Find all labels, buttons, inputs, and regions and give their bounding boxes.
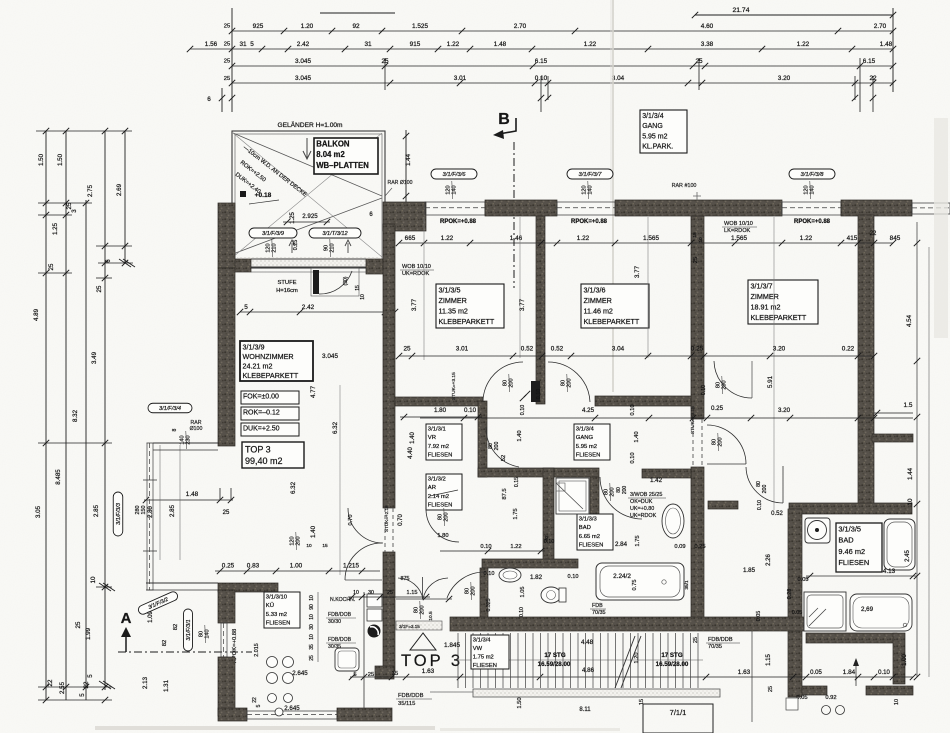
svg-text:0.10: 0.10 bbox=[757, 500, 763, 510]
svg-text:30/35: 30/35 bbox=[328, 644, 341, 650]
svg-text:915: 915 bbox=[410, 41, 421, 48]
svg-text:3/1/F/3/7: 3/1/F/3/7 bbox=[579, 172, 603, 178]
room stamp 7/1/1 below stairs bbox=[643, 704, 713, 733]
svg-text:STUK=+2.15: STUK=+2.15 bbox=[384, 505, 389, 532]
top exterior wall segment A (corner block) bbox=[383, 202, 426, 231]
svg-text:4.48: 4.48 bbox=[581, 639, 594, 646]
shower niche wall bath3 bbox=[590, 477, 599, 515]
corridor door arc to bath3 bbox=[600, 477, 642, 519]
svg-text:25: 25 bbox=[693, 637, 699, 643]
svg-text:25: 25 bbox=[75, 621, 82, 628]
room box Gang lower bbox=[574, 424, 610, 460]
svg-text:0.25: 0.25 bbox=[222, 563, 235, 570]
svg-text:3/1/F/3/8: 3/1/F/3/8 bbox=[801, 172, 825, 178]
svg-text:1.46: 1.46 bbox=[510, 235, 523, 242]
svg-text:1.22: 1.22 bbox=[510, 544, 521, 550]
window-bay dimension labels left bbox=[113, 492, 123, 536]
svg-text:2.015: 2.015 bbox=[254, 643, 260, 657]
svg-text:25: 25 bbox=[224, 24, 230, 30]
svg-text:1.40: 1.40 bbox=[410, 432, 416, 444]
bad3 shower tray bbox=[556, 478, 589, 514]
corridor top wall east segment bbox=[595, 396, 691, 406]
svg-text:17 STG: 17 STG bbox=[661, 652, 683, 659]
svg-text:200: 200 bbox=[622, 486, 628, 495]
svg-text:3.20: 3.20 bbox=[773, 346, 786, 353]
room box Bad5 bbox=[836, 523, 882, 572]
oval 3/1/F/3/8 bbox=[789, 169, 835, 179]
left bay window (vertical) bbox=[146, 443, 148, 590]
svg-text:2.645: 2.645 bbox=[284, 705, 300, 712]
svg-text:5: 5 bbox=[87, 674, 94, 678]
svg-text:UK=RDOK: UK=RDOK bbox=[630, 513, 657, 519]
svg-text:3.49: 3.49 bbox=[91, 351, 98, 364]
left bay window top連 bbox=[153, 442, 218, 444]
oval 3/1/F/3/7 bbox=[567, 169, 613, 179]
svg-text:0.10: 0.10 bbox=[630, 452, 636, 463]
svg-text:1.22: 1.22 bbox=[441, 235, 454, 242]
svg-text:STUK=+3.15: STUK=+3.15 bbox=[690, 406, 696, 434]
svg-text:FLIESEN: FLIESEN bbox=[838, 558, 869, 567]
bath5 east lower wall bbox=[893, 633, 905, 684]
svg-text:8: 8 bbox=[172, 428, 178, 431]
spine wall lower bbox=[383, 552, 395, 671]
svg-text:0.10: 0.10 bbox=[520, 405, 526, 416]
svg-text:KL.PARK.: KL.PARK. bbox=[642, 144, 673, 151]
svg-text:3/1/3/4: 3/1/3/4 bbox=[576, 427, 595, 433]
svg-text:2.69: 2.69 bbox=[116, 183, 123, 196]
svg-text:5.95 m2: 5.95 m2 bbox=[576, 444, 597, 450]
top exterior wall window 3 bbox=[782, 201, 841, 203]
svg-text:KLEBEPARKETT: KLEBEPARKETT bbox=[439, 317, 495, 326]
svg-text:8.11: 8.11 bbox=[579, 707, 591, 713]
svg-text:925: 925 bbox=[253, 23, 264, 30]
svg-text:0.325: 0.325 bbox=[486, 598, 492, 611]
svg-text:1.48: 1.48 bbox=[186, 491, 199, 498]
svg-text:3.045: 3.045 bbox=[322, 353, 338, 360]
svg-text:FDB/DDB: FDB/DDB bbox=[398, 693, 424, 699]
stair hall label box bbox=[471, 635, 509, 669]
room box AR bbox=[426, 474, 462, 510]
bad5 bathtub right bbox=[884, 519, 915, 570]
svg-text:Ø100: Ø100 bbox=[190, 426, 203, 432]
kitchen tall units bbox=[367, 594, 382, 607]
svg-text:5.91: 5.91 bbox=[767, 375, 774, 388]
svg-text:TOP 3: TOP 3 bbox=[245, 444, 271, 454]
svg-text:1.09: 1.09 bbox=[148, 611, 154, 623]
svg-text:25: 25 bbox=[693, 257, 699, 263]
entrance double door arcs bbox=[398, 578, 423, 599]
svg-text:9.46 m2: 9.46 m2 bbox=[838, 547, 865, 556]
svg-text:STUFE: STUFE bbox=[277, 280, 296, 286]
svg-text:0.83: 0.83 bbox=[247, 563, 260, 570]
svg-text:150: 150 bbox=[141, 506, 147, 515]
svg-text:1.20: 1.20 bbox=[634, 653, 640, 664]
balcony floor dotted strip bbox=[237, 257, 380, 267]
svg-text:1.80: 1.80 bbox=[434, 407, 447, 414]
svg-text:0.10: 0.10 bbox=[464, 407, 477, 414]
svg-text:70/35: 70/35 bbox=[708, 644, 722, 650]
svg-text:1.75: 1.75 bbox=[513, 508, 519, 519]
svg-text:200: 200 bbox=[494, 442, 500, 451]
svg-text:25: 25 bbox=[48, 263, 55, 270]
svg-text:30: 30 bbox=[309, 624, 315, 630]
svg-text:0.10: 0.10 bbox=[536, 389, 542, 400]
stair dim vertical bbox=[751, 631, 753, 722]
svg-text:KÜ: KÜ bbox=[266, 602, 274, 609]
svg-text:25: 25 bbox=[66, 202, 73, 209]
entrance threshold hatch bbox=[396, 621, 442, 630]
svg-text:2.84: 2.84 bbox=[615, 541, 628, 548]
svg-text:10: 10 bbox=[309, 634, 315, 640]
svg-text:2.75: 2.75 bbox=[87, 184, 94, 197]
room box Wohnzimmer bbox=[240, 341, 313, 381]
svg-text:0.05: 0.05 bbox=[798, 577, 809, 583]
balcony door markers ovals bbox=[249, 228, 297, 238]
svg-text:OK=DUK: OK=DUK bbox=[630, 499, 653, 505]
svg-text:10: 10 bbox=[306, 543, 312, 549]
interior wall x=691 lower bbox=[691, 467, 704, 626]
svg-text:1.44: 1.44 bbox=[405, 153, 412, 166]
lower-left ovals and door markers bbox=[137, 590, 179, 615]
svg-text:2,69: 2,69 bbox=[861, 606, 874, 613]
svg-text:25: 25 bbox=[96, 285, 103, 292]
top exterior wall segment C bbox=[615, 200, 782, 216]
svg-text:1.5: 1.5 bbox=[904, 402, 913, 409]
svg-text:3.05: 3.05 bbox=[35, 505, 42, 518]
svg-text:BALKON: BALKON bbox=[316, 140, 350, 149]
bath5 corridor walls bbox=[708, 501, 738, 509]
svg-text:RAR #100: RAR #100 bbox=[672, 183, 697, 189]
svg-text:FLIESEN: FLIESEN bbox=[266, 620, 291, 626]
svg-text:0.70: 0.70 bbox=[348, 515, 354, 526]
svg-text:1.50: 1.50 bbox=[517, 697, 523, 708]
room box Bad3 bbox=[577, 514, 613, 550]
svg-text:5: 5 bbox=[256, 704, 262, 707]
svg-text:3/1/F/3/4: 3/1/F/3/4 bbox=[159, 406, 181, 412]
svg-text:RPOK=+0.88: RPOK=+0.88 bbox=[794, 219, 831, 225]
svg-text:RAR Ø100: RAR Ø100 bbox=[387, 180, 412, 186]
svg-text:KLEBEPARKETT: KLEBEPARKETT bbox=[243, 371, 299, 380]
svg-text:1.05: 1.05 bbox=[520, 587, 526, 598]
stairwell top wall bbox=[450, 617, 806, 631]
svg-text:0.25: 0.25 bbox=[694, 544, 705, 550]
svg-text:2.13: 2.13 bbox=[142, 676, 149, 689]
dimension chain top row 1 bbox=[232, 30, 893, 32]
svg-text:5: 5 bbox=[250, 41, 254, 48]
svg-text:1.565: 1.565 bbox=[643, 235, 659, 242]
svg-text:30: 30 bbox=[368, 590, 374, 596]
svg-text:1.20: 1.20 bbox=[301, 23, 314, 30]
svg-text:8.04 m2: 8.04 m2 bbox=[316, 150, 345, 159]
dim row under top wall bbox=[399, 242, 893, 244]
svg-text:3/1/3/3: 3/1/3/3 bbox=[579, 517, 598, 523]
svg-text:FLIESEN: FLIESEN bbox=[576, 452, 601, 458]
svg-text:8.32: 8.32 bbox=[72, 409, 79, 422]
svg-text:H=16cm: H=16cm bbox=[276, 288, 298, 294]
svg-text:GANG: GANG bbox=[642, 123, 663, 130]
svg-text:1.99: 1.99 bbox=[85, 627, 92, 640]
svg-text:0.10: 0.10 bbox=[630, 404, 636, 415]
svg-text:25: 25 bbox=[224, 42, 230, 48]
bad3 washbasin oval bbox=[662, 504, 684, 538]
svg-text:7/1/1: 7/1/1 bbox=[670, 708, 687, 717]
svg-text:3/1/3/9: 3/1/3/9 bbox=[243, 342, 265, 351]
svg-text:3.01: 3.01 bbox=[454, 75, 467, 82]
svg-text:25: 25 bbox=[223, 510, 230, 516]
svg-text:FOK=±0.00: FOK=±0.00 bbox=[243, 394, 279, 401]
svg-text:665: 665 bbox=[405, 235, 416, 242]
svg-text:1.80: 1.80 bbox=[437, 533, 448, 539]
svg-text:25: 25 bbox=[309, 655, 315, 661]
svg-text:3/1/F/3/1: 3/1/F/3/1 bbox=[186, 619, 192, 640]
bottom exterior wall bbox=[218, 708, 247, 721]
svg-text:VR: VR bbox=[428, 435, 436, 441]
double door arcs between rooms (0.52) bbox=[483, 362, 523, 402]
svg-text:0.10: 0.10 bbox=[519, 607, 525, 617]
svg-text:10: 10 bbox=[907, 498, 914, 505]
svg-text:22: 22 bbox=[252, 697, 258, 703]
svg-text:3/1/T/3/12: 3/1/T/3/12 bbox=[322, 231, 348, 237]
stair treads bbox=[457, 633, 459, 688]
svg-text:FLIESEN: FLIESEN bbox=[428, 452, 453, 458]
svg-text:87.5: 87.5 bbox=[502, 488, 508, 499]
svg-text:1.31: 1.31 bbox=[163, 679, 170, 692]
dimension chain top row 2 bbox=[190, 48, 893, 50]
svg-text:3/1/3/2: 3/1/3/2 bbox=[428, 477, 446, 483]
svg-text:FDB: FDB bbox=[592, 603, 603, 609]
svg-text:3/1/3/1: 3/1/3/1 bbox=[428, 427, 446, 433]
svg-text:3/WOB 25/25: 3/WOB 25/25 bbox=[630, 492, 662, 498]
door leaf black corridor bbox=[531, 381, 540, 402]
left dimension tick lines bbox=[36, 130, 132, 132]
svg-text:21.74: 21.74 bbox=[732, 7, 749, 14]
svg-text:A: A bbox=[121, 610, 132, 627]
svg-text:10: 10 bbox=[353, 590, 359, 596]
svg-text:3: 3 bbox=[71, 209, 78, 213]
svg-text:17 STG: 17 STG bbox=[544, 652, 566, 659]
svg-text:16.59/28.00: 16.59/28.00 bbox=[538, 661, 571, 668]
svg-text:6.15: 6.15 bbox=[535, 58, 548, 65]
scan smudge bottom bbox=[95, 726, 435, 730]
svg-text:0.92: 0.92 bbox=[825, 695, 836, 701]
room box Zimmer 3/1/3/5 bbox=[436, 284, 504, 328]
svg-text:4.77: 4.77 bbox=[310, 385, 317, 398]
svg-text:10: 10 bbox=[360, 294, 366, 300]
svg-text:25: 25 bbox=[224, 59, 230, 65]
svg-text:0.10: 0.10 bbox=[878, 670, 890, 676]
dimension chain top row 0 (21.74) bbox=[695, 14, 893, 16]
svg-text:2.45: 2.45 bbox=[905, 550, 911, 562]
dimension chain top row 4 bbox=[232, 82, 893, 84]
interior spine wall x=383 bbox=[383, 224, 395, 508]
svg-text:1.40: 1.40 bbox=[310, 525, 317, 538]
svg-text:0.75: 0.75 bbox=[632, 580, 638, 591]
svg-text:0.22: 0.22 bbox=[842, 346, 855, 353]
svg-text:1.215: 1.215 bbox=[343, 563, 359, 570]
svg-text:52: 52 bbox=[501, 455, 507, 461]
svg-text:200: 200 bbox=[762, 485, 768, 494]
corridor dim row y=548 bbox=[440, 550, 545, 552]
bath5 west wall bbox=[788, 509, 802, 697]
level boxes FOK/ROK/DUK bbox=[241, 391, 299, 404]
wc toilet bbox=[541, 587, 561, 603]
VR east wall bbox=[478, 401, 487, 477]
AR door arc bbox=[426, 509, 459, 542]
balcony small up arrows bbox=[289, 240, 295, 253]
svg-text:KLEBEPARKETT: KLEBEPARKETT bbox=[751, 313, 807, 322]
svg-text:4.25: 4.25 bbox=[582, 407, 595, 414]
room box Zimmer 3/1/3/6 bbox=[581, 284, 649, 328]
svg-text:0.15: 0.15 bbox=[514, 477, 520, 487]
svg-text:90: 90 bbox=[309, 604, 315, 610]
svg-text:3/1/3/6: 3/1/3/6 bbox=[584, 285, 606, 294]
svg-text:ZIMMER: ZIMMER bbox=[439, 296, 467, 305]
svg-text:1.84: 1.84 bbox=[843, 669, 856, 676]
bad5 shower tray bbox=[804, 592, 846, 631]
svg-text:10.5: 10.5 bbox=[428, 611, 434, 621]
svg-text:15: 15 bbox=[692, 232, 698, 238]
svg-text:5: 5 bbox=[79, 693, 86, 697]
svg-text:15: 15 bbox=[322, 543, 328, 549]
svg-text:25: 25 bbox=[768, 686, 774, 692]
svg-text:6: 6 bbox=[105, 259, 112, 263]
dim row under balcony bbox=[240, 311, 395, 313]
svg-text:25: 25 bbox=[224, 76, 230, 82]
dimension chain top verticals bbox=[231, 8, 233, 112]
svg-text:4.40: 4.40 bbox=[408, 447, 414, 459]
svg-text:2.14 m2: 2.14 m2 bbox=[428, 494, 449, 500]
svg-text:15: 15 bbox=[355, 285, 361, 291]
balcony right dim 1.44 bbox=[405, 130, 407, 224]
left lower window bbox=[220, 623, 222, 657]
svg-text:1.75 m2: 1.75 m2 bbox=[473, 654, 494, 660]
svg-text:24.21 m2: 24.21 m2 bbox=[243, 362, 273, 371]
svg-text:16.59/28.00: 16.59/28.00 bbox=[656, 661, 689, 668]
svg-text:1.50: 1.50 bbox=[57, 153, 64, 166]
kitchen stove icon black bbox=[368, 625, 381, 638]
svg-text:875: 875 bbox=[401, 576, 410, 582]
kitchen burners bbox=[267, 657, 278, 668]
svg-text:FLIESEN: FLIESEN bbox=[428, 502, 453, 508]
svg-text:3.38: 3.38 bbox=[701, 41, 714, 48]
kitchen sink bbox=[335, 648, 359, 671]
kitchen top dim row bbox=[348, 596, 430, 598]
svg-text:1.44: 1.44 bbox=[907, 467, 914, 480]
svg-text:BAD: BAD bbox=[838, 536, 853, 545]
svg-text:31: 31 bbox=[364, 41, 372, 48]
bath5 south wall bbox=[806, 633, 897, 643]
svg-text:11.35 m2: 11.35 m2 bbox=[439, 306, 468, 315]
svg-text:4.54: 4.54 bbox=[906, 314, 913, 327]
left exterior wall lower bbox=[218, 590, 235, 623]
room box Zimmer 3/1/3/7 bbox=[748, 280, 818, 324]
corridor top wall west segment bbox=[395, 397, 483, 406]
svg-text:10: 10 bbox=[309, 595, 315, 601]
svg-text:1.85: 1.85 bbox=[743, 567, 756, 574]
svg-text:ZIMMER: ZIMMER bbox=[751, 292, 779, 301]
svg-text:1.15: 1.15 bbox=[766, 654, 772, 666]
svg-text:3/1/F/3/6: 3/1/F/3/6 bbox=[443, 172, 467, 178]
room vertical helper lines bbox=[423, 217, 425, 360]
svg-text:3/1/3/4: 3/1/3/4 bbox=[642, 113, 664, 120]
bay extension lines bbox=[159, 445, 161, 560]
dim row above kitchen bbox=[215, 570, 380, 572]
svg-text:10: 10 bbox=[309, 614, 315, 620]
svg-text:415: 415 bbox=[847, 235, 858, 242]
svg-text:2.645: 2.645 bbox=[292, 670, 308, 677]
neighbour wall stub right bbox=[872, 434, 913, 442]
svg-text:6.15: 6.15 bbox=[863, 58, 876, 65]
svg-text:1.48: 1.48 bbox=[494, 41, 507, 48]
room box VR bbox=[426, 424, 462, 460]
svg-text:0.10: 0.10 bbox=[484, 571, 495, 577]
wc door arc bbox=[447, 572, 485, 598]
svg-text:3/1/F/3/9: 3/1/F/3/9 bbox=[262, 231, 284, 237]
window-bay dim line x=150 bbox=[144, 499, 233, 501]
svg-text:1.00: 1.00 bbox=[290, 563, 303, 570]
svg-text:31: 31 bbox=[239, 41, 247, 48]
top wall neighbour window lines right bbox=[912, 202, 950, 204]
right exterior wall of Zimmer7 bbox=[858, 215, 874, 504]
svg-text:WOHNZIMMER: WOHNZIMMER bbox=[243, 352, 294, 361]
svg-text:4.89: 4.89 bbox=[33, 308, 40, 321]
svg-text:6: 6 bbox=[207, 96, 211, 103]
svg-text:22: 22 bbox=[83, 681, 90, 688]
svg-text:25: 25 bbox=[403, 346, 411, 353]
svg-text:1.50: 1.50 bbox=[38, 153, 45, 166]
bad5 sink square basin bbox=[805, 518, 830, 543]
right wall corner to neighbour bbox=[789, 503, 912, 514]
svg-text:3/1/F/3/3: 3/1/F/3/3 bbox=[116, 502, 122, 525]
svg-text:2.85: 2.85 bbox=[93, 504, 100, 517]
svg-text:GANG: GANG bbox=[576, 435, 594, 441]
interior wall between Zimmer5/6 bbox=[536, 216, 545, 404]
svg-text:4.86: 4.86 bbox=[582, 667, 595, 674]
WC north wall bbox=[482, 559, 578, 568]
svg-text:5.33 m2: 5.33 m2 bbox=[266, 612, 287, 618]
svg-text:UK=+0.80: UK=+0.80 bbox=[630, 506, 654, 512]
balcony diagonals bbox=[233, 133, 382, 196]
svg-text:3/1/3/10: 3/1/3/10 bbox=[266, 595, 288, 601]
svg-text:3.77: 3.77 bbox=[411, 298, 418, 311]
svg-text:3.20: 3.20 bbox=[778, 407, 791, 414]
left exterior wall upper bbox=[218, 203, 235, 268]
svg-text:3.045: 3.045 bbox=[295, 75, 311, 82]
svg-text:6.32: 6.32 bbox=[290, 481, 297, 494]
svg-text:WOB 10/10: WOB 10/10 bbox=[402, 264, 431, 270]
svg-text:1.22: 1.22 bbox=[800, 235, 813, 242]
stair bottom band bbox=[473, 689, 720, 697]
svg-text:0.05: 0.05 bbox=[810, 670, 822, 676]
section line A (dash-dot) bbox=[118, 651, 252, 653]
svg-text:0.10: 0.10 bbox=[568, 574, 579, 580]
svg-text:2.85: 2.85 bbox=[169, 504, 176, 517]
svg-text:1.63: 1.63 bbox=[422, 668, 435, 675]
svg-text:35/1: 35/1 bbox=[684, 580, 690, 590]
corridor door arc to VR bbox=[486, 427, 519, 467]
top exterior wall segment D bbox=[841, 200, 912, 216]
svg-text:FDB/DOB: FDB/DOB bbox=[328, 612, 352, 618]
svg-text:WOB 10/10: WOB 10/10 bbox=[724, 221, 753, 227]
svg-text:0.10: 0.10 bbox=[480, 544, 491, 550]
svg-text:10: 10 bbox=[90, 576, 97, 583]
dimension chain top row 3 bbox=[232, 65, 893, 67]
svg-text:WB–PLATTEN: WB–PLATTEN bbox=[316, 161, 369, 170]
svg-text:99,40 m2: 99,40 m2 bbox=[245, 456, 283, 466]
svg-text:1.82: 1.82 bbox=[530, 574, 543, 581]
svg-text:30/30: 30/30 bbox=[328, 619, 341, 625]
svg-text:3/1/3/5: 3/1/3/5 bbox=[439, 285, 461, 294]
